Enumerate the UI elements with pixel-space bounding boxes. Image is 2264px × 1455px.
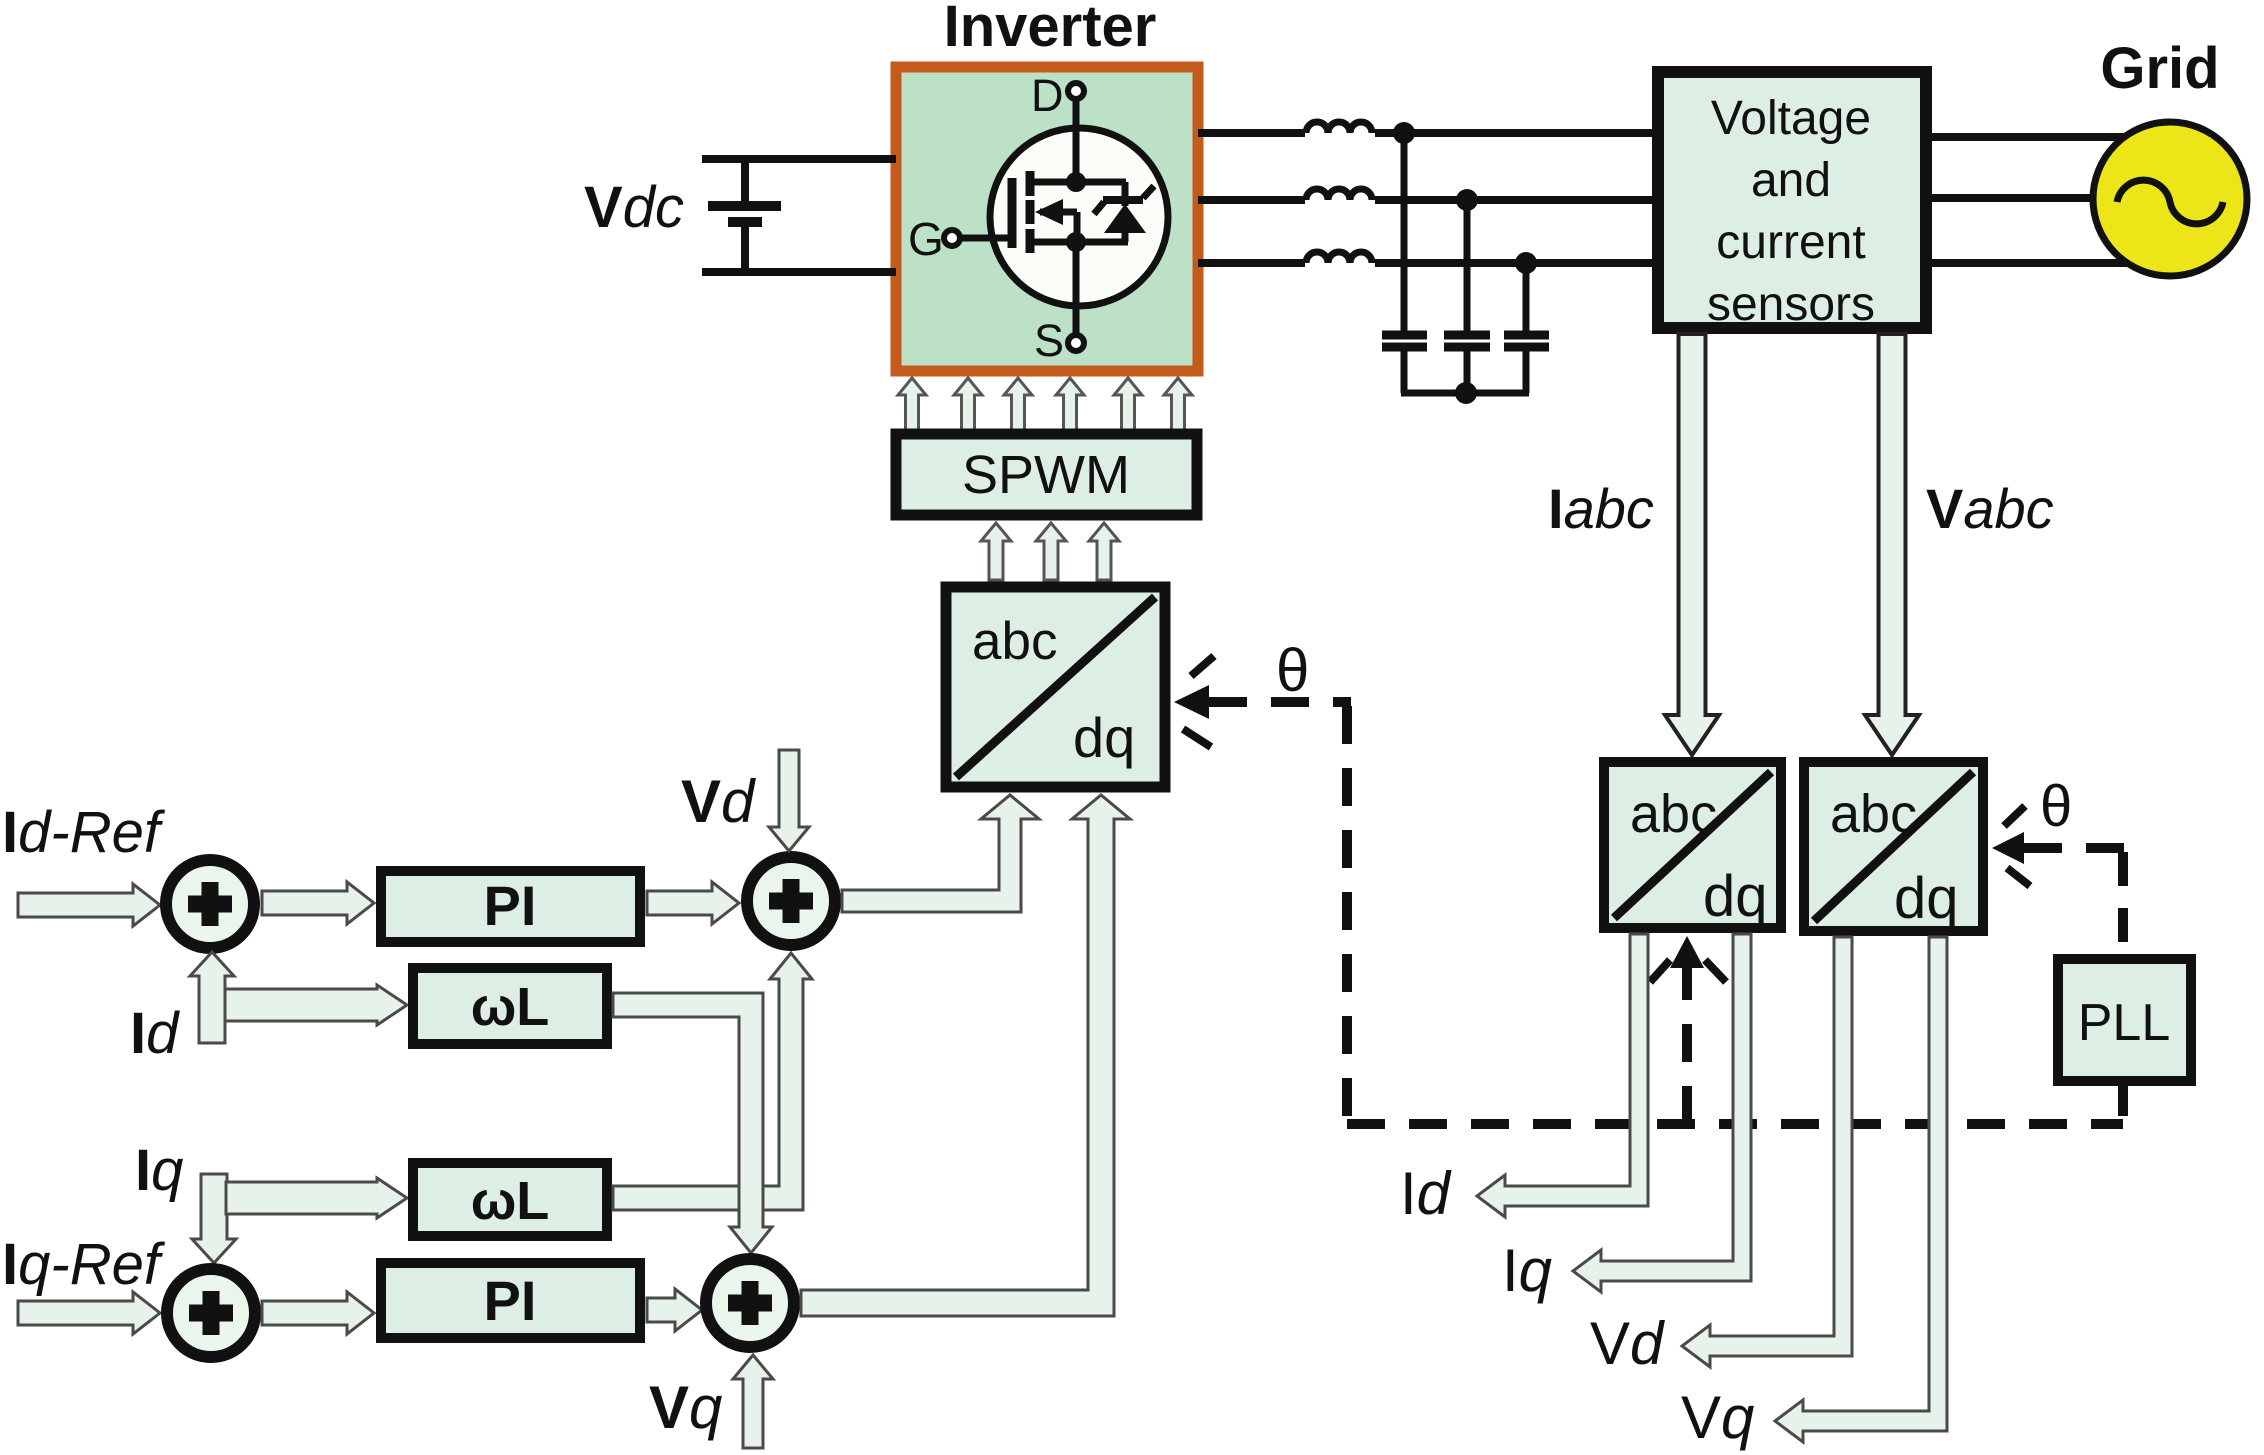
label Iq (output) [1502, 1237, 1552, 1304]
svg-text:and: and [1751, 154, 1831, 207]
svg-text:current: current [1716, 216, 1865, 269]
arrow PI1 to S2 [647, 882, 739, 924]
inverter power module U1 (orange box) [896, 67, 1198, 371]
svg-text:Id: Id [1400, 1160, 1452, 1227]
block wL2 [413, 1163, 607, 1236]
label S [1034, 315, 1064, 366]
node phase A junction [1393, 122, 1415, 144]
capacitor Cb [1444, 200, 1490, 393]
dashed wire PLL to theta bus [2118, 1086, 2128, 1124]
dashed wire theta to U4 [2024, 843, 2127, 853]
svg-text:Id: Id [130, 1001, 180, 1066]
dashed wire theta bus horizontal [1347, 1119, 2123, 1129]
wire DC bus negative [702, 268, 896, 276]
dashed wire theta vertical [1342, 706, 1352, 1124]
arrow S3 to PI2 [262, 1292, 374, 1334]
gate signal arrow 2 [954, 378, 982, 430]
source grid (AC source) [2093, 122, 2247, 276]
gate signal arrow 6 [1164, 378, 1192, 430]
pin S terminal [1068, 250, 1084, 351]
block PI2 [381, 1263, 640, 1338]
pin D terminal [1068, 83, 1084, 182]
label Iq-Ref [2, 1232, 166, 1297]
svg-text:dq: dq [1073, 706, 1135, 769]
wire sensors to grid phase A [1930, 133, 2150, 141]
transistor Q1 gate structure [1012, 171, 1128, 253]
theta U4 ray upper [2004, 806, 2025, 826]
arrow Iq-Ref input [18, 1292, 160, 1334]
label Inverter [944, 0, 1157, 59]
wire capacitor common [1401, 390, 1529, 397]
block dq-to-abc transform U2 [946, 587, 1165, 787]
battery Vdc [708, 155, 781, 276]
pin G terminal [944, 230, 1012, 246]
arrow PI2 to S4 [647, 1289, 702, 1331]
diode D1 (body diode) [1094, 182, 1154, 242]
arrowhead theta U4 [1992, 832, 2024, 864]
svg-text:Vq: Vq [1681, 1384, 1754, 1451]
summing junction S3 [167, 1269, 255, 1357]
arrow Id into S1 [190, 952, 234, 1043]
label PI2 [484, 1269, 537, 1332]
svg-text:Voltage: Voltage [1711, 92, 1871, 145]
svg-text:D: D [1031, 70, 1064, 121]
svg-text:abc: abc [972, 612, 1057, 671]
label PI1 [484, 874, 537, 937]
theta U2 ray upper [1191, 656, 1214, 676]
svg-text:PI: PI [484, 874, 537, 937]
wire phase A [1198, 129, 1652, 137]
wire S4 output to U2 [801, 795, 1130, 1316]
svg-text:Iq: Iq [135, 1138, 183, 1203]
label Vd (feedforward) [681, 768, 756, 835]
svg-text:G: G [908, 213, 944, 265]
inductor Lb [1305, 186, 1375, 212]
gate signal arrow 1 [898, 378, 926, 430]
wire Vd output [1682, 937, 1852, 1367]
label Id-Ref [2, 800, 166, 865]
theta U3 ray right [1705, 960, 1726, 982]
arrow Iabc [1665, 334, 1719, 755]
modulation signal arrow 1 [981, 523, 1011, 580]
summing junction S2 [747, 857, 835, 945]
svg-text:S: S [1034, 315, 1064, 366]
label theta (U2) [1276, 637, 1309, 704]
modulation signal arrow 3 [1089, 523, 1119, 580]
block SPWM [896, 434, 1197, 515]
wire S2 output to U2 [842, 795, 1039, 912]
summing junction S4 [706, 1259, 794, 1347]
svg-text:Grid: Grid [2100, 36, 2219, 101]
arrow Id-Ref input [18, 884, 160, 926]
summing junction S1 [166, 860, 254, 948]
svg-text:Inverter: Inverter [944, 0, 1157, 59]
capacitor Cc [1504, 263, 1549, 393]
svg-text:ωL: ωL [471, 977, 550, 1037]
label G [908, 213, 944, 265]
label wL1 [471, 977, 550, 1037]
arrow S1 to PI1 [262, 882, 374, 924]
label Voltage and current sensors [1707, 92, 1875, 331]
wire wL2 output to S2 [613, 953, 812, 1210]
wire Id output [1477, 934, 1648, 1217]
label wL2 [471, 1171, 550, 1231]
block PLL [2058, 959, 2191, 1081]
wire wL1 output to S4 [613, 993, 772, 1253]
gate signal arrow 4 [1056, 378, 1084, 430]
inductor Lc [1305, 249, 1375, 275]
svg-text:PI: PI [484, 1269, 537, 1332]
wire Vq output [1775, 937, 1947, 1442]
node capacitor common dot [1455, 382, 1477, 404]
svg-text:dq: dq [1703, 864, 1768, 929]
label Id (output) [1400, 1160, 1452, 1227]
svg-text:Iq-Ref: Iq-Ref [2, 1232, 166, 1297]
svg-text:sensors: sensors [1707, 278, 1875, 331]
label Vd (output) [1590, 1310, 1665, 1377]
dashed wire U4 to PLL [2118, 852, 2128, 954]
label Id (feedback) [130, 1001, 180, 1066]
svg-text:dq: dq [1894, 866, 1959, 931]
transistor Q1 drain node dot [1066, 172, 1086, 192]
label Vabc [1926, 477, 2054, 540]
wire phase B [1198, 196, 1652, 204]
node phase C junction [1515, 252, 1537, 274]
transistor Q1 body circle [990, 128, 1168, 306]
capacitor Ca [1382, 133, 1427, 393]
arrowhead theta U2 [1174, 685, 1209, 719]
svg-text:Vdc: Vdc [584, 175, 684, 240]
svg-text:Iabc: Iabc [1548, 477, 1654, 540]
label Vq (output) [1681, 1384, 1754, 1451]
dashed wire theta to U2 [1209, 697, 1351, 707]
label Vdc [584, 175, 684, 240]
svg-text:Vq: Vq [649, 1374, 722, 1441]
arrow Vabc [1865, 334, 1919, 755]
block abc-to-dq transform U4 (voltages) [1804, 762, 1983, 931]
gate signal arrow 5 [1114, 378, 1142, 430]
svg-text:abc: abc [1830, 784, 1917, 844]
block wL1 [413, 968, 607, 1044]
block abc-to-dq transform U3 (currents) [1604, 762, 1781, 929]
arrow Vd into S2 [769, 750, 809, 851]
transistor Q1 source node dot [1066, 232, 1086, 252]
label Vq (feedforward) [649, 1374, 722, 1441]
svg-text:ωL: ωL [471, 1171, 550, 1231]
label Grid [2100, 36, 2219, 101]
svg-text:SPWM: SPWM [962, 445, 1130, 505]
arrowhead theta U3 [1670, 936, 1704, 968]
svg-text:Iq: Iq [1502, 1237, 1552, 1304]
svg-text:θ: θ [2040, 774, 2072, 839]
arrow Id to wL1 [225, 985, 407, 1025]
label theta (U4) [2040, 774, 2072, 839]
label Iabc [1548, 477, 1654, 540]
block PI1 [381, 871, 640, 942]
svg-text:Id-Ref: Id-Ref [2, 800, 166, 865]
inductor La [1305, 119, 1375, 145]
label PLL [2078, 994, 2171, 1052]
modulation signal arrow 2 [1036, 523, 1066, 580]
svg-text:Vd: Vd [1590, 1310, 1665, 1377]
svg-text:abc: abc [1630, 784, 1717, 844]
node phase B junction [1456, 189, 1478, 211]
wire Iq output [1573, 934, 1751, 1292]
label D [1031, 70, 1064, 121]
wire sensors to grid phase B [1930, 194, 2110, 202]
dashed wire theta to U3 [1682, 962, 1692, 1124]
wire phase C [1198, 259, 1652, 267]
svg-text:Vd: Vd [681, 768, 756, 835]
arrow Vq into S4 [733, 1355, 773, 1448]
svg-text:θ: θ [1276, 637, 1309, 704]
wire DC bus positive [702, 155, 896, 163]
theta U4 ray lower [2007, 868, 2030, 886]
label SPWM [962, 445, 1130, 505]
svg-text:PLL: PLL [2078, 994, 2171, 1052]
theta U2 ray lower [1183, 729, 1211, 747]
gate signal arrow 3 [1004, 378, 1032, 430]
block voltage and current sensors [1658, 72, 1926, 328]
wire sensors to grid phase C [1930, 259, 2150, 267]
svg-text:Vabc: Vabc [1926, 477, 2054, 540]
label Iq (feedback) [135, 1138, 183, 1203]
theta U3 ray left [1650, 960, 1670, 982]
arrow Iq into S3 [192, 1174, 236, 1263]
arrow Iq to wL2 [226, 1178, 407, 1218]
